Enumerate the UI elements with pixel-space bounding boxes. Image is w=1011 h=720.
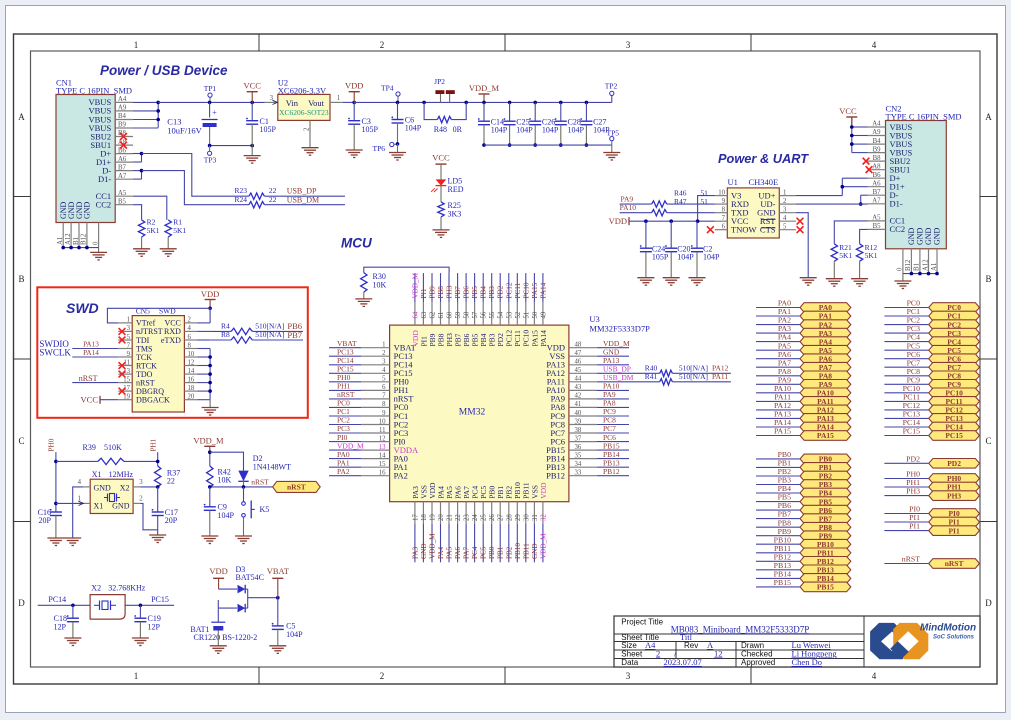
svg-text:0: 0 (92, 241, 99, 245)
resistor R41 510[N/A] (597, 381, 660, 383)
svg-text:A1: A1 (931, 263, 938, 271)
U1 pin 7 VCC (715, 220, 727, 222)
svg-text:SWD: SWD (66, 300, 99, 316)
port PI0 (884, 513, 928, 515)
svg-text:30: 30 (523, 514, 530, 521)
CN5 pin 7 TMS (118, 348, 132, 350)
svg-text:PC4: PC4 (471, 546, 479, 559)
CN1 pin B4 VBUS (115, 119, 133, 121)
svg-text:D1-: D1- (98, 174, 111, 184)
no-connect X on CN1 SBU1 (120, 142, 127, 149)
svg-text:29: 29 (515, 514, 522, 521)
svg-text:42: 42 (575, 393, 582, 400)
SWD section red border (37, 287, 308, 418)
no-connect X on U1 CTS (797, 226, 804, 233)
svg-text:TP5: TP5 (607, 129, 620, 138)
svg-text:104P: 104P (405, 124, 422, 133)
svg-text:62: 62 (430, 311, 437, 318)
svg-text:41: 41 (575, 401, 582, 408)
ground under C17 (149, 534, 166, 536)
svg-text:PH3: PH3 (446, 285, 454, 298)
capacitor C28 104P (559, 101, 563, 105)
svg-text:Power & UART: Power & UART (718, 151, 809, 166)
X1 pin 2 (133, 502, 140, 504)
wire D- net from CN1 (133, 170, 142, 172)
CN5 pin 1 VTref (118, 322, 132, 324)
ground under C18 (64, 637, 81, 639)
svg-text:PA2: PA2 (394, 471, 408, 481)
port PA11 (756, 400, 800, 402)
svg-text:Vin: Vin (286, 98, 299, 108)
ground under R25 (433, 229, 450, 231)
svg-text:1: 1 (382, 342, 385, 349)
svg-text:B1: B1 (914, 263, 921, 271)
svg-text:MM32F5333D7P: MM32F5333D7P (589, 324, 650, 334)
port PB4 (756, 492, 800, 494)
svg-text:32: 32 (540, 514, 547, 521)
svg-text:35: 35 (575, 452, 582, 459)
U1 pin 9 RXD (715, 203, 727, 205)
svg-text:R8: R8 (221, 330, 230, 339)
svg-text:PA14: PA14 (539, 282, 547, 298)
battery BAT1 CR1220 (217, 600, 219, 608)
CN1 pin A9 VBUS (115, 110, 133, 112)
CN2 GND pins (902, 249, 904, 274)
svg-text:510[N/A]: 510[N/A] (255, 330, 284, 339)
svg-text:B12: B12 (81, 233, 88, 245)
svg-text:5K1: 5K1 (865, 251, 878, 260)
svg-text:Rev: Rev (684, 641, 698, 650)
port PA5 (756, 349, 800, 351)
U3 pin 43 PA10 (569, 389, 597, 391)
ground under U1 GND (800, 277, 817, 279)
svg-text:40: 40 (575, 410, 582, 417)
svg-text:10uF/16V: 10uF/16V (167, 126, 202, 136)
U3 pin 55 PB3 (491, 302, 493, 325)
capacitor C19 12P (139, 605, 141, 618)
U3 pin 40 PC9 (569, 415, 597, 417)
svg-text:X2: X2 (120, 484, 130, 493)
no-connect X on CN2 SBU2 (863, 158, 870, 165)
port PC15 (884, 435, 928, 437)
svg-text:16: 16 (188, 376, 195, 383)
U3 pin 54 PD2 (499, 302, 501, 325)
svg-text:61: 61 (438, 312, 445, 319)
svg-text:B5: B5 (873, 223, 882, 230)
svg-text:PA7: PA7 (463, 546, 471, 559)
port PH1 (884, 486, 928, 488)
svg-text:nRST: nRST (287, 483, 306, 492)
svg-text:PA13: PA13 (83, 341, 99, 349)
port PC9 (884, 383, 928, 385)
svg-text:2: 2 (188, 317, 192, 324)
ground under R2 (133, 248, 150, 250)
U3 pin 6 PH1 (361, 389, 390, 391)
svg-text:28: 28 (506, 514, 513, 521)
svg-text:A: A (18, 112, 25, 122)
svg-text:3: 3 (127, 325, 131, 332)
svg-text:SWCLK: SWCLK (39, 347, 71, 357)
CN1 pin B5 CC2 (115, 204, 133, 206)
svg-text:PA10: PA10 (620, 203, 637, 212)
CN2 pin B8 SBU2 (868, 160, 886, 162)
port PB13 (756, 569, 800, 571)
svg-text:R41: R41 (645, 372, 658, 381)
U3 pin 62 PB9 (431, 302, 433, 325)
no-connect X on CN2 SBU1 (866, 166, 873, 173)
svg-text:A4: A4 (645, 640, 656, 650)
ground under C2 (689, 277, 706, 279)
svg-text:5K1: 5K1 (839, 251, 852, 260)
svg-text:A4: A4 (118, 96, 127, 103)
U3 pin 31 VSS (533, 502, 535, 524)
capacitor C14 104P (483, 102, 485, 121)
svg-text:63: 63 (421, 311, 428, 318)
resistor R8 510[N/A] (210, 339, 231, 341)
svg-text:14: 14 (188, 368, 195, 375)
port PC5 (884, 349, 928, 351)
wire CN2 CC2 to R12 (860, 229, 868, 243)
svg-text:D1-: D1- (890, 199, 903, 209)
svg-text:10K: 10K (218, 476, 232, 485)
svg-text:PA14: PA14 (539, 330, 548, 347)
svg-text:VDD_M: VDD_M (193, 435, 224, 445)
svg-text:6: 6 (382, 384, 386, 391)
port PA9 (756, 383, 800, 385)
U3 pin 5 PH0 (361, 381, 390, 383)
CN5 pin 17 DBGRQ (118, 390, 132, 392)
svg-text:A12: A12 (922, 259, 929, 271)
zone ticks (258, 34, 260, 51)
resistor R40 510[N/A] (597, 372, 660, 374)
U1 pin 2 UD- (779, 203, 796, 205)
capacitor C26 104P (533, 101, 537, 105)
power symbol VCC (250, 101, 254, 105)
svg-text:VDD: VDD (201, 289, 219, 299)
svg-text:X1: X1 (92, 470, 102, 479)
svg-text:MindMotion: MindMotion (920, 623, 976, 634)
svg-text:PI1: PI1 (909, 522, 920, 531)
X1 pin 4 (83, 486, 90, 488)
capacitor C16 20P (50, 511, 62, 513)
U3 pin 11 PC3 (361, 432, 390, 434)
wire D+ net from CN1 (133, 153, 142, 155)
CN1 pin B8 SBU2 (115, 136, 133, 138)
svg-text:22: 22 (269, 186, 277, 195)
CN1 pin B9 VBUS (115, 127, 133, 129)
svg-text:4: 4 (872, 671, 877, 681)
port PB14 (756, 577, 800, 579)
svg-text:27: 27 (498, 514, 505, 521)
capacitor C25 104P (508, 101, 512, 105)
U3 pin 33 PB12 (569, 475, 597, 477)
svg-text:TNOW: TNOW (731, 225, 757, 235)
ground under C16 (47, 537, 64, 539)
svg-text:2: 2 (304, 127, 311, 131)
port PA0 (756, 307, 800, 309)
CN1 pin A5 CC1 (115, 195, 133, 197)
U1 pin 4 RST (779, 220, 796, 222)
svg-text:MM32: MM32 (459, 408, 486, 418)
ground under CN1 (90, 251, 107, 253)
port PC14 (884, 426, 928, 428)
svg-text:VDD_M: VDD_M (469, 83, 500, 93)
ground under U2 (302, 147, 319, 149)
U3 pin 10 PC2 (361, 424, 390, 426)
ground under C19 (132, 637, 149, 639)
svg-text:20P: 20P (165, 516, 178, 525)
svg-text:CH340E: CH340E (749, 177, 779, 187)
wire D3 cathode to VBAT (248, 597, 278, 599)
ground under BAT1 (210, 645, 227, 647)
U3 pin 46 PA13 (569, 364, 597, 366)
resistor R37 22 (155, 466, 161, 487)
CN2 pin A5 CC1 (868, 220, 886, 222)
svg-text:Power / USB Device: Power / USB Device (100, 63, 228, 78)
svg-text:43: 43 (575, 384, 582, 391)
MindMotion logo graphic (870, 623, 928, 659)
svg-text:105P: 105P (652, 253, 669, 262)
U3 pin 53 PC12 (508, 302, 510, 325)
svg-text:7: 7 (722, 215, 726, 222)
svg-text:PC12: PC12 (505, 282, 513, 298)
svg-text:50: 50 (532, 311, 539, 318)
svg-text:U1: U1 (728, 177, 738, 187)
U3 pin 17 PA3 (414, 502, 416, 524)
svg-text:19: 19 (430, 514, 437, 521)
svg-text:5K1: 5K1 (147, 226, 160, 235)
svg-text:33: 33 (575, 470, 582, 477)
U3 pin 36 PB15 (569, 449, 597, 451)
CN5 pin 8 (184, 348, 197, 350)
port PI1 (884, 530, 928, 532)
wire C13 to C1 bottom bus (210, 145, 253, 147)
svg-text:22: 22 (455, 514, 462, 521)
svg-text:0: 0 (897, 267, 904, 271)
U3 pin 7 nRST (361, 398, 390, 400)
resistor R39 510K (56, 460, 98, 462)
no-connect X on U1 RST (797, 218, 804, 225)
svg-text:B6: B6 (873, 172, 882, 179)
svg-text:7: 7 (127, 342, 131, 349)
ground under C6 (389, 152, 406, 154)
svg-text:60: 60 (447, 311, 454, 318)
CN5 pin 5 TDI (118, 339, 132, 341)
port PB5 (756, 501, 800, 503)
svg-text:B7: B7 (118, 164, 127, 171)
CN5 pin 18 (184, 390, 197, 392)
svg-text:eTXD: eTXD (161, 336, 181, 345)
port PB0 (756, 458, 800, 460)
svg-text:VDD_M: VDD_M (411, 272, 419, 298)
IC U3 MM32F5333D7P body (390, 325, 569, 502)
svg-text:48: 48 (575, 342, 582, 349)
svg-text:55: 55 (489, 311, 496, 318)
svg-text:GND: GND (933, 227, 942, 245)
U3 pin 28 PB2 (508, 502, 510, 524)
svg-text:X2: X2 (91, 584, 101, 593)
port PB15 (756, 586, 800, 588)
wire VBUS bus CN2 (852, 126, 868, 128)
svg-text:15: 15 (379, 461, 386, 468)
port PA7 (756, 366, 800, 368)
capacitor C20 104P (670, 221, 672, 248)
ground under R1 (160, 248, 177, 250)
svg-text:D: D (985, 598, 992, 608)
svg-text:1N4148WT: 1N4148WT (253, 463, 291, 472)
port nRST (884, 563, 928, 565)
ground under R12 (851, 278, 868, 280)
svg-text:A: A (985, 112, 992, 122)
svg-text:17: 17 (412, 514, 419, 521)
resistor R23 22 (249, 193, 265, 199)
U1 pin 1 UD+ (779, 195, 796, 197)
svg-text:4: 4 (783, 215, 787, 222)
svg-text:105P: 105P (362, 125, 379, 134)
svg-text:31: 31 (532, 514, 539, 521)
CN2 pin B5 CC2 (868, 228, 886, 230)
ground under K5 (235, 535, 252, 537)
port PB3 (756, 484, 800, 486)
svg-text:20: 20 (438, 514, 445, 521)
svg-text:D: D (18, 598, 25, 608)
U3 pin 22 PA6 (457, 502, 459, 524)
svg-text:2: 2 (382, 350, 386, 357)
U1 pin 3 GND (779, 212, 796, 214)
svg-text:39: 39 (575, 418, 582, 425)
U3 pin 49 PA14 (542, 302, 544, 325)
CN5 pin 15 nRST (118, 382, 132, 384)
CN1 pin A4 VBUS (115, 101, 133, 103)
U3 pin 57 PB5 (474, 302, 476, 325)
svg-text:U3: U3 (589, 314, 599, 324)
svg-text:VDD_M: VDD_M (429, 533, 437, 559)
ground under C9 (201, 535, 218, 537)
port PC12 (884, 409, 928, 411)
svg-text:26: 26 (489, 514, 496, 521)
svg-text:12: 12 (379, 435, 386, 442)
svg-text:C: C (18, 436, 24, 446)
CN1 pin A8 SBU1 (115, 144, 133, 146)
U3 pin 27 PB1 (499, 502, 501, 524)
svg-text:104P: 104P (703, 253, 720, 262)
CN5 pin 10 (184, 356, 197, 358)
svg-text:USB_DM: USB_DM (287, 195, 319, 204)
svg-text:R23: R23 (234, 186, 247, 195)
port PC11 (884, 400, 928, 402)
svg-text:59: 59 (455, 311, 462, 318)
svg-text:PI1: PI1 (948, 526, 960, 535)
svg-text:CC2: CC2 (890, 224, 906, 234)
no-connect X on U1 TNOW (707, 226, 714, 233)
U3 pin 44 PA11 (569, 381, 597, 383)
U3 pin 13 VDDA (361, 449, 390, 451)
svg-text:20P: 20P (39, 516, 52, 525)
svg-text:1: 1 (127, 317, 130, 324)
svg-text:PC15: PC15 (151, 595, 169, 604)
wire CN2 D+ D1+ to UD+ (842, 177, 867, 179)
svg-text:53: 53 (506, 311, 513, 318)
CN1 pin B6 D+ (115, 153, 133, 155)
CN1 GND pins (62, 223, 64, 248)
svg-text:TP3: TP3 (204, 156, 217, 165)
svg-text:PA15: PA15 (774, 427, 791, 436)
svg-text:49: 49 (540, 311, 547, 318)
U3 pin 48 VDD (569, 347, 597, 349)
svg-text:PD2: PD2 (947, 459, 961, 468)
svg-text:GND: GND (94, 484, 112, 493)
svg-text:3: 3 (382, 359, 386, 366)
U2 pin 1 (330, 101, 343, 103)
svg-text:VCC: VCC (81, 395, 99, 405)
svg-text:PB3: PB3 (488, 286, 496, 299)
svg-text:PA5: PA5 (446, 546, 454, 559)
svg-text:54: 54 (498, 311, 505, 318)
svg-text:PA15: PA15 (817, 431, 834, 440)
wire V3 to VCC net (698, 196, 715, 222)
CN2 pin A6 D1+ (868, 186, 886, 188)
U3 pin 39 PC8 (569, 424, 597, 426)
svg-text:2: 2 (139, 496, 143, 503)
svg-text:3: 3 (783, 206, 787, 213)
U3 pin 64 VDD (414, 302, 416, 325)
svg-text:VBAT: VBAT (267, 566, 290, 576)
svg-text:105P: 105P (260, 125, 277, 134)
svg-text:34: 34 (575, 461, 582, 468)
svg-text:Data: Data (621, 658, 638, 667)
X1 pin 1 (83, 502, 90, 504)
svg-text:1: 1 (134, 671, 139, 681)
svg-text:4: 4 (188, 325, 192, 332)
capacitor C6 104P (396, 101, 400, 105)
svg-text:B: B (18, 274, 24, 284)
svg-text:8: 8 (188, 342, 192, 349)
port PA12 (756, 409, 800, 411)
U3 pin 25 PC5 (482, 502, 484, 524)
port PB6 (756, 509, 800, 511)
port PC8 (884, 375, 928, 377)
connector CN2 TYPE C 16PIN_SMD (886, 121, 947, 249)
svg-text:8: 8 (382, 401, 386, 408)
U3 pin 42 PA9 (569, 398, 597, 400)
svg-text:GND: GND (112, 502, 130, 511)
ground under C5 (269, 645, 286, 647)
svg-text:10K: 10K (373, 281, 387, 290)
CN2 pin A9 VBUS (868, 135, 886, 137)
svg-text:TYPE C 16PIN_SMD: TYPE C 16PIN_SMD (56, 86, 132, 96)
svg-text:A5: A5 (872, 215, 881, 222)
test point TP3 (209, 146, 211, 151)
svg-text:4: 4 (78, 479, 82, 486)
svg-text:510K: 510K (104, 443, 122, 452)
U1 pin 6 TNOW (715, 229, 727, 231)
svg-text:32.768KHz: 32.768KHz (108, 584, 146, 593)
svg-text:PB6: PB6 (463, 286, 471, 299)
LED LD5 RED (436, 179, 447, 185)
port PA2 (756, 324, 800, 326)
svg-text:PB12: PB12 (546, 471, 565, 481)
svg-text:CR1220 BS-1220-2: CR1220 BS-1220-2 (194, 633, 258, 642)
U3 pin 59 PB7 (457, 302, 459, 325)
port PB2 (756, 475, 800, 477)
svg-text:C: C (985, 436, 991, 446)
wire U1 GND to ground (796, 213, 808, 278)
ground under R21 (826, 278, 843, 280)
svg-text:VDD: VDD (609, 216, 627, 226)
svg-text:PB2: PB2 (505, 546, 513, 559)
wire CN2 CC1 to R21 (834, 221, 867, 244)
svg-text:2: 2 (380, 40, 385, 50)
